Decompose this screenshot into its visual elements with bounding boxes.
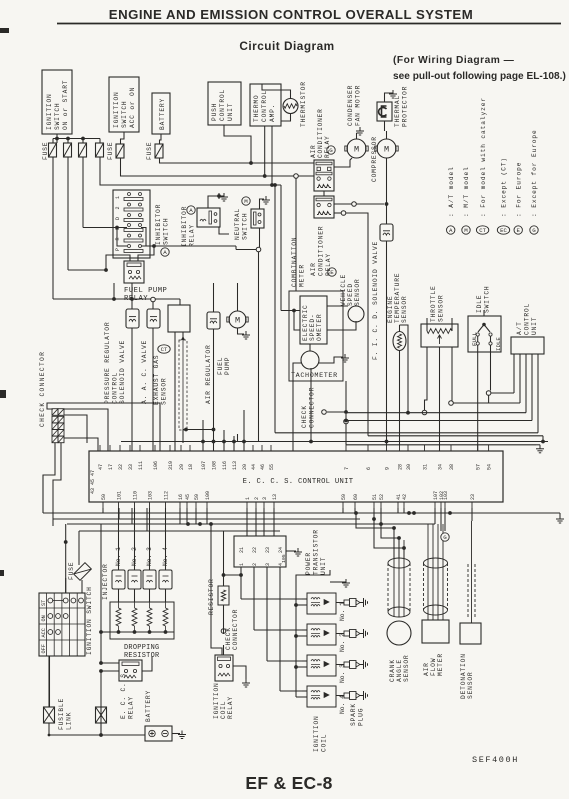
push control unit — [208, 82, 241, 125]
svg-text:SPEED: SPEED — [347, 283, 354, 306]
svg-text:AIR REGULATOR: AIR REGULATOR — [205, 344, 212, 404]
svg-text:FUSIBLE: FUSIBLE — [58, 698, 65, 730]
inhibitor switch (A) — [113, 190, 170, 258]
svg-text:EF & EC-8: EF & EC-8 — [245, 773, 332, 793]
wire: tach down — [309, 368, 313, 443]
svg-text:9: 9 — [385, 467, 391, 470]
svg-text:43 45 47: 43 45 47 — [90, 470, 96, 494]
svg-text:51: 51 — [372, 494, 378, 500]
svg-text:EC: EC — [500, 227, 507, 234]
legend: model codes — [447, 97, 539, 234]
svg-text:59: 59 — [194, 494, 200, 500]
resistor — [208, 531, 229, 628]
svg-text:SENSOR: SENSOR — [438, 295, 445, 322]
electric speedometer — [300, 296, 327, 344]
wire: fuse3 down to inhibitor — [82, 157, 84, 228]
svg-text:METER: METER — [437, 653, 444, 676]
svg-text:A: A — [449, 227, 453, 234]
svg-text:E. C. C. S. CONTROL UNIT: E. C. C. S. CONTROL UNIT — [243, 478, 354, 486]
svg-text:COMBINATION: COMBINATION — [291, 237, 298, 287]
svg-text:18: 18 — [188, 464, 194, 470]
fuse 5 (ACC) — [116, 144, 124, 158]
thermistor — [262, 81, 307, 127]
svg-text:44: 44 — [251, 464, 257, 470]
fusible link 1 — [44, 656, 55, 735]
svg-text:47: 47 — [98, 464, 104, 470]
svg-text:: For Europe: : For Europe — [515, 162, 522, 217]
svg-text:CONDENSER: CONDENSER — [347, 85, 354, 126]
svg-text:CONTROL: CONTROL — [261, 90, 268, 122]
svg-text:SENSOR: SENSOR — [354, 279, 361, 306]
fusible link label — [58, 698, 73, 730]
svg-text:PROTECTOR: PROTECTOR — [402, 86, 409, 127]
svg-text:13: 13 — [272, 494, 278, 500]
svg-text:PUMP: PUMP — [224, 357, 231, 375]
svg-text:CONNECTOR: CONNECTOR — [309, 387, 316, 428]
svg-text:CT: CT — [479, 227, 486, 234]
detonation sensor — [460, 521, 481, 699]
svg-text:IGNITION: IGNITION — [113, 91, 120, 128]
wire: throttle sensor drops — [422, 347, 453, 451]
svg-text:CHECK: CHECK — [301, 405, 308, 428]
injectors No.1-4 — [102, 547, 172, 600]
ignition coils No.1-4 with spark plugs — [307, 593, 368, 714]
svg-text:UNIT: UNIT — [531, 317, 538, 335]
wire: thermo control amp down — [265, 126, 272, 185]
svg-text:M: M — [384, 145, 389, 155]
battery (bottom) — [145, 690, 186, 741]
svg-text:AIR: AIR — [423, 662, 430, 676]
wire: bus y443 with junction dots — [121, 440, 346, 444]
svg-text:SENSOR: SENSOR — [403, 655, 410, 682]
ignition switch (table) — [39, 586, 93, 656]
svg-text:101: 101 — [117, 491, 123, 500]
air conditioner relay (E) — [310, 196, 336, 276]
wire: below-ECCS right buses — [330, 508, 564, 531]
svg-text:1: 1 — [245, 497, 251, 500]
svg-text:IGNITION: IGNITION — [46, 93, 53, 130]
neutral switch (M) — [234, 197, 264, 240]
svg-text:24: 24 — [278, 547, 284, 553]
svg-text:PRESSURE REGULATOR: PRESSURE REGULATOR — [104, 322, 111, 404]
svg-text:103: 103 — [443, 491, 449, 500]
svg-text:PUSH: PUSH — [211, 103, 218, 121]
wire/ground: neutral switch — [236, 196, 270, 442]
svg-text:SOLENOID VALVE: SOLENOID VALVE — [119, 340, 126, 404]
wire: crank sensor feeds — [356, 513, 406, 558]
svg-text:INHIBITOR: INHIBITOR — [155, 204, 162, 245]
svg-text:see pull-out following page EL: see pull-out following page EL-108.) — [393, 71, 566, 82]
svg-text:E: E — [330, 269, 334, 276]
engine temperature sensor — [387, 273, 408, 445]
svg-text:AIR: AIR — [310, 144, 317, 158]
svg-text:G: G — [532, 227, 536, 234]
svg-text:D: D — [115, 217, 121, 220]
svg-text:E. C. C. S.: E. C. C. S. — [120, 669, 127, 719]
svg-text:CONTROL: CONTROL — [524, 303, 531, 335]
wire: ACC trunk y176 — [121, 158, 315, 178]
idle switch — [468, 286, 502, 352]
svg-text:CT: CT — [161, 346, 168, 353]
svg-text:ON or START: ON or START — [62, 80, 69, 130]
svg-text:: Except for Europe: : Except for Europe — [531, 129, 538, 217]
svg-text:112: 112 — [164, 491, 170, 500]
wire: compressor to FICD — [386, 158, 388, 224]
svg-text:50: 50 — [101, 494, 107, 500]
svg-text:Circuit Diagram: Circuit Diagram — [239, 39, 334, 53]
crank angle sensor — [387, 540, 411, 682]
air flow meter — [422, 524, 449, 676]
svg-text:SWITCH: SWITCH — [121, 101, 128, 128]
svg-text:2: 2 — [115, 206, 121, 209]
air conditioner relay (G) — [310, 108, 335, 196]
wire: relay out down — [131, 283, 133, 299]
ignition switch ON or START — [42, 70, 72, 134]
svg-text:METER: METER — [299, 264, 306, 287]
svg-text:59: 59 — [341, 494, 347, 500]
condenser fan motor — [345, 85, 368, 158]
svg-text:TEMPERATURE: TEMPERATURE — [394, 273, 401, 323]
svg-text:UNIT: UNIT — [227, 103, 234, 121]
subtitle: Circuit Diagram — [239, 39, 334, 53]
air regulator — [205, 283, 220, 443]
wire: ignition coil relay connections — [211, 524, 250, 687]
svg-text:E: E — [516, 227, 520, 234]
svg-text:109: 109 — [205, 491, 211, 500]
svg-text:COIL: COIL — [220, 701, 227, 719]
svg-text:28: 28 — [398, 464, 404, 470]
svg-text:AIR: AIR — [310, 262, 317, 276]
svg-text:16: 16 — [178, 494, 184, 500]
svg-text:54: 54 — [487, 464, 493, 470]
vehicle speed sensor — [340, 274, 364, 322]
svg-text:P: P — [115, 248, 121, 251]
wire: injector feeds — [119, 508, 166, 602]
svg-text:INJECTOR: INJECTOR — [102, 563, 109, 600]
svg-text:FUEL: FUEL — [217, 357, 224, 375]
wire: into inhibitor switch — [83, 226, 236, 248]
footer: SEF400H — [472, 755, 519, 765]
thermal protector — [377, 86, 409, 131]
svg-text:1: 1 — [115, 196, 121, 199]
svg-text:319: 319 — [168, 461, 174, 470]
wire/ground: inhibitor relay — [208, 193, 229, 234]
svg-text:M: M — [354, 145, 359, 155]
svg-text:RELAY: RELAY — [189, 224, 196, 247]
tachometer — [291, 351, 338, 380]
svg-text:BATTERY: BATTERY — [145, 690, 152, 722]
fuse 3 — [79, 143, 87, 157]
svg-text:55: 55 — [269, 464, 275, 470]
svg-text:SWITCH: SWITCH — [484, 286, 491, 313]
svg-text:: Except (CT): : Except (CT) — [501, 157, 508, 217]
wire: left drops to ECCS — [203, 410, 244, 451]
svg-text:FUSE: FUSE — [146, 142, 153, 160]
note: wiring diagram pull-out reference — [393, 55, 566, 82]
wire: fuse1 long drop to valve feeds — [53, 157, 180, 302]
svg-text:CONDITIONER: CONDITIONER — [317, 108, 324, 158]
fuel pump relay — [124, 261, 167, 303]
ECCS control unit — [89, 445, 503, 508]
svg-text:FUEL PUMP: FUEL PUMP — [124, 287, 167, 295]
svg-text:THERMO: THERMO — [253, 95, 260, 122]
svg-text:FUSE: FUSE — [107, 142, 114, 160]
wire: power transistor outputs — [241, 567, 302, 691]
fuse 2 — [64, 143, 72, 157]
svg-text:G: G — [443, 534, 447, 541]
svg-text:FAN MOTOR: FAN MOTOR — [355, 85, 362, 126]
svg-text:IGNITION: IGNITION — [313, 715, 320, 752]
wire: right horizontal trunks — [275, 393, 548, 445]
svg-text:46: 46 — [260, 464, 266, 470]
svg-text:M: M — [244, 198, 248, 205]
svg-text:CONTROL: CONTROL — [112, 372, 119, 404]
A.A.C. valve — [141, 302, 160, 451]
svg-text:38: 38 — [449, 464, 455, 470]
wire: check connector to ECCS — [43, 403, 160, 519]
svg-text:SWITCH: SWITCH — [163, 218, 170, 245]
svg-text:ACC or ON: ACC or ON — [129, 87, 136, 128]
svg-text:7: 7 — [344, 467, 350, 470]
svg-text:OFF: OFF — [41, 644, 47, 653]
A/T control unit — [511, 303, 544, 354]
svg-text:ELECTRIC: ELECTRIC — [302, 304, 309, 341]
svg-text:IDLE: IDLE — [476, 295, 483, 313]
wire: battery trunk y163 — [160, 158, 315, 165]
svg-text:A: A — [163, 249, 167, 256]
svg-text:29: 29 — [179, 464, 185, 470]
wire: table top feeds — [50, 578, 83, 707]
fusible link 2 — [96, 707, 107, 735]
svg-text:DROPPING: DROPPING — [124, 644, 159, 652]
svg-text:42: 42 — [402, 494, 408, 500]
E.C.C.S. relay — [119, 660, 142, 719]
svg-text:31: 31 — [423, 464, 429, 470]
svg-text:: For model with catalyzer: : For model with catalyzer — [480, 97, 487, 217]
svg-text:SPARK: SPARK — [350, 703, 357, 726]
svg-text:(For Wiring Diagram —: (For Wiring Diagram — — [393, 55, 515, 66]
svg-text:32: 32 — [118, 464, 124, 470]
F.I.C.D. solenoid valve — [372, 224, 393, 445]
power transistor unit — [234, 529, 327, 575]
svg-text:SENSOR: SENSOR — [467, 672, 474, 699]
svg-text:CONTROL: CONTROL — [219, 89, 226, 121]
fuse 4 — [96, 143, 104, 157]
svg-text:: A/T model: : A/T model — [448, 166, 455, 217]
wire: ACC fuse feed — [121, 132, 125, 144]
wire: meter feed — [295, 178, 297, 291]
svg-text:THROTTLE: THROTTLE — [430, 285, 437, 322]
svg-text:111: 111 — [138, 461, 144, 470]
svg-text:SWITCH: SWITCH — [242, 213, 249, 240]
svg-text:3: 3 — [265, 563, 271, 566]
wire: battery fuse feed — [160, 134, 162, 144]
wire: battery feed — [48, 733, 145, 737]
svg-text:AMP.: AMP. — [269, 104, 276, 122]
scan artifacts — [0, 390, 6, 576]
svg-text:3: 3 — [262, 497, 268, 500]
svg-text:103: 103 — [148, 491, 154, 500]
svg-text:30: 30 — [406, 464, 412, 470]
ignition coil relay — [213, 655, 234, 719]
thermo control amp — [250, 84, 281, 126]
svg-text:CHECK: CHECK — [225, 627, 232, 650]
fuse (bottom) — [68, 562, 91, 581]
svg-text:105: 105 — [281, 554, 287, 563]
wire: speedometer circuit — [281, 185, 356, 451]
svg-text:6: 6 — [366, 467, 372, 470]
svg-text:SWITCH: SWITCH — [54, 103, 61, 130]
svg-text:EXHAUST GAS: EXHAUST GAS — [153, 355, 160, 405]
title: ENGINE AND EMISSION CONTROL OVERALL SYSTEM — [0, 7, 561, 33]
dropping resistor — [110, 602, 174, 660]
svg-text:2: 2 — [254, 497, 260, 500]
svg-text:60: 60 — [353, 494, 359, 500]
pressure regulator control solenoid valve — [104, 299, 139, 451]
svg-text:34: 34 — [438, 464, 444, 470]
svg-text:57: 57 — [476, 464, 482, 470]
svg-text:SEF400H: SEF400H — [472, 755, 519, 765]
wire: ground right — [536, 436, 545, 453]
svg-text:SENSOR: SENSOR — [401, 296, 408, 323]
fuel pump — [217, 283, 250, 375]
svg-text:FULL: FULL — [471, 332, 478, 346]
svg-text:THERMAL: THERMAL — [394, 95, 401, 127]
svg-text:RELAY: RELAY — [227, 696, 234, 719]
fuse 6 (battery) — [155, 144, 163, 158]
exhaust gas sensor — [153, 299, 190, 451]
svg-text:23: 23 — [265, 547, 271, 553]
svg-text:R: R — [115, 237, 121, 240]
check connector (meter) — [301, 381, 348, 445]
svg-text:108: 108 — [212, 461, 218, 470]
svg-text:FUSE: FUSE — [68, 562, 75, 580]
svg-text:COIL: COIL — [321, 734, 328, 752]
wire: resistor top tee — [222, 573, 243, 577]
svg-text:CONNECTOR: CONNECTOR — [232, 609, 239, 650]
spark plug label — [350, 703, 365, 726]
wire: A/T control unit drops — [514, 354, 538, 433]
svg-text:116: 116 — [222, 461, 228, 470]
svg-text:106: 106 — [153, 461, 159, 470]
fuse row labels — [42, 142, 153, 160]
svg-text:COMPRESSOR: COMPRESSOR — [371, 136, 378, 182]
svg-text:33: 33 — [128, 464, 134, 470]
svg-text:ANGLE: ANGLE — [396, 659, 403, 682]
svg-text:SPEED-: SPEED- — [309, 314, 316, 341]
wire: fuse2 to fuel pump relay — [68, 157, 130, 272]
svg-text:22: 22 — [252, 547, 258, 553]
svg-text:IDLE: IDLE — [495, 337, 502, 351]
svg-text:A/T: A/T — [516, 321, 523, 335]
ignition switch ACC or ON — [109, 77, 139, 132]
svg-text:CONDITIONER: CONDITIONER — [318, 226, 325, 276]
svg-text:TACHOMETER: TACHOMETER — [291, 372, 338, 380]
wire: trunk y185 from fuse4 — [100, 157, 281, 433]
svg-text:ACC: ACC — [41, 628, 47, 637]
svg-text:107: 107 — [201, 461, 207, 470]
wire: push control unit down — [224, 125, 251, 163]
wire: coil supply vertical — [294, 570, 350, 697]
svg-text:ON: ON — [41, 615, 47, 621]
svg-text:BATTERY: BATTERY — [159, 98, 166, 130]
svg-text:113: 113 — [232, 461, 238, 470]
svg-text:M: M — [235, 316, 240, 326]
wire: AC relay E row204 — [334, 202, 388, 207]
svg-text:VEHICLE: VEHICLE — [340, 274, 347, 306]
wire: AC relay G to condenser fan motor — [334, 158, 352, 167]
wire: below-ECCS buses left — [43, 475, 435, 593]
svg-text:CHECK CONNECTOR: CHECK CONNECTOR — [39, 351, 46, 427]
svg-text:1: 1 — [239, 563, 245, 566]
wire: ignition ON/START to fuses — [53, 134, 100, 143]
check connector (diagnostic, left) — [39, 351, 64, 443]
svg-text:F. I. C. D. SOLENOID VALVE: F. I. C. D. SOLENOID VALVE — [372, 241, 379, 360]
svg-text:CRANK: CRANK — [389, 659, 396, 682]
battery (top) — [152, 93, 170, 134]
svg-text:ST: ST — [41, 600, 47, 606]
svg-text:21: 21 — [239, 547, 245, 553]
svg-text:TRANSISTOR: TRANSISTOR — [313, 529, 320, 575]
svg-text:M: M — [464, 227, 468, 234]
svg-text:POWER: POWER — [305, 552, 312, 575]
svg-text:110: 110 — [133, 491, 139, 500]
svg-text:RESISTOR: RESISTOR — [124, 652, 159, 660]
svg-text:SENSOR: SENSOR — [161, 378, 168, 405]
svg-text:IGNITION SWITCH: IGNITION SWITCH — [86, 586, 93, 655]
svg-text:ENGINE AND EMISSION CONTROL OV: ENGINE AND EMISSION CONTROL OVERALL SYST… — [109, 7, 473, 22]
svg-text:OMETER: OMETER — [316, 314, 323, 341]
throttle sensor — [421, 285, 458, 347]
compressor — [371, 131, 398, 182]
footer: page code — [245, 773, 332, 793]
ignition coil label — [313, 715, 328, 752]
svg-text:45: 45 — [185, 494, 191, 500]
svg-text:A: A — [189, 207, 193, 214]
svg-text:RELAY: RELAY — [128, 696, 135, 719]
svg-text:THERMISTOR: THERMISTOR — [300, 81, 307, 127]
wire: ECCS bottom drops — [180, 508, 274, 536]
svg-text:PLUG: PLUG — [358, 708, 365, 726]
combination meter (dashed) — [289, 237, 343, 381]
shielded wire: exhaust sensor — [179, 332, 215, 443]
wire: ECCS relay connections — [99, 656, 152, 735]
svg-text:DETONATION: DETONATION — [460, 653, 467, 699]
svg-text:20: 20 — [242, 464, 248, 470]
check connector (bottom) — [221, 609, 239, 650]
inhibitor relay (A) — [181, 206, 220, 247]
svg-text:ENGINE: ENGINE — [387, 296, 394, 323]
svg-text:17: 17 — [108, 464, 114, 470]
wire: AC relay E bottom to trunk — [334, 211, 368, 436]
svg-text:: M/T model: : M/T model — [463, 166, 470, 217]
wire: fuel pump relay coil from inhibitor net — [138, 246, 154, 261]
svg-text:G: G — [329, 147, 333, 154]
wire: dropping resistor out — [99, 524, 110, 663]
svg-text:LINK: LINK — [66, 712, 73, 730]
svg-text:IGNITION: IGNITION — [213, 682, 220, 719]
svg-text:NEUTRAL: NEUTRAL — [234, 208, 241, 240]
svg-text:FLOW: FLOW — [430, 658, 437, 676]
svg-text:52: 52 — [379, 494, 385, 500]
fuse 1 — [49, 143, 57, 157]
svg-text:A. A. C. VALVE: A. A. C. VALVE — [141, 340, 148, 404]
svg-text:2: 2 — [252, 563, 258, 566]
svg-text:UNIT: UNIT — [320, 557, 327, 575]
model mark G — [441, 533, 449, 541]
wire: idle switch drops — [478, 310, 491, 451]
svg-text:23: 23 — [470, 494, 476, 500]
